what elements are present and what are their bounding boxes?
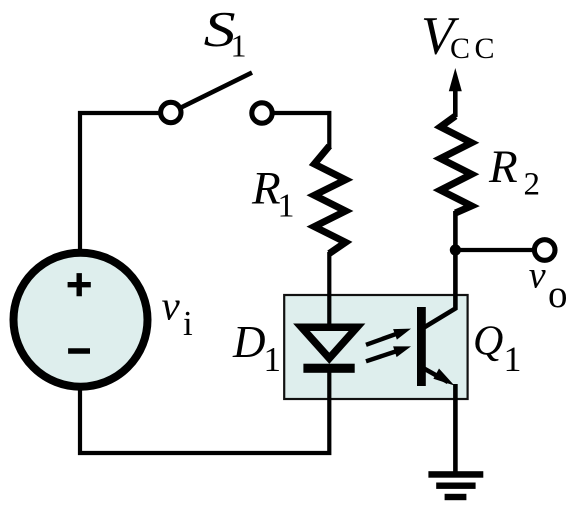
svg-text:R: R [488, 141, 518, 193]
wire junction to output terminal [455, 248, 534, 252]
svg-text:1: 1 [264, 340, 282, 379]
phototransistor Q1 emitter lead with arrow [424, 369, 448, 383]
svg-text:CC: CC [450, 32, 499, 65]
node junction dot [450, 244, 461, 255]
light arrow upper [366, 329, 411, 345]
svg-text:1: 1 [504, 339, 522, 379]
svg-text:R: R [251, 163, 281, 215]
svg-text:v: v [162, 283, 181, 329]
wire emitter to ground [453, 384, 458, 472]
LED D1 [302, 327, 358, 358]
svg-text:i: i [183, 304, 193, 343]
light arrow lower [366, 346, 411, 361]
svg-text:2: 2 [524, 166, 541, 202]
svg-text:D: D [232, 317, 266, 367]
phototransistor Q1 collector lead [424, 211, 455, 328]
optocoupler package box [284, 295, 467, 399]
svg-text:o: o [548, 273, 568, 316]
svg-text:1: 1 [278, 188, 295, 225]
svg-text:Q: Q [473, 318, 503, 364]
wire from switch to R1 [275, 113, 330, 148]
supply VCC arrow [449, 68, 462, 91]
ground [428, 471, 483, 478]
voltage source v_i [14, 253, 148, 387]
resistor R1 [314, 146, 345, 254]
wire bottom loop: LED cathode down, across bottom, up to source minus terminal [80, 368, 329, 453]
wire left rail top: source plus up, right to switch left contact [80, 113, 159, 252]
resistor R2 [440, 116, 471, 213]
wire R1 to LED anode [327, 252, 331, 328]
svg-text:v: v [529, 255, 546, 297]
switch S1 [161, 102, 181, 122]
terminal v_o [534, 240, 555, 261]
svg-text:1: 1 [231, 28, 247, 64]
phototransistor Q1 base bar [417, 307, 426, 386]
